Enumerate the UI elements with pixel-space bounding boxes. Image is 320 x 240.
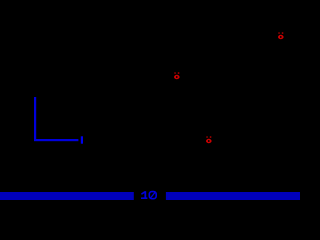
atom O3 ring xyxy=(206,139,212,143)
bond-draw cursor L-shape horizontal segment xyxy=(34,139,78,141)
digit 0 slash xyxy=(150,192,156,199)
atom O1 ring xyxy=(278,35,284,39)
atom O3 umlaut dot right xyxy=(210,136,212,137)
atom O2 umlaut dot right xyxy=(178,72,180,73)
digit 1 base serif xyxy=(141,197,147,199)
bond-draw cursor L-shape vertical segment xyxy=(34,97,36,141)
cursor end tick xyxy=(81,136,83,143)
atom O2 ring xyxy=(174,75,180,79)
atom O1 umlaut dot right xyxy=(282,32,284,33)
atom O2 (middle) umlaut dot left xyxy=(174,72,175,73)
digit 1 flag xyxy=(141,191,146,197)
status bar left segment xyxy=(0,192,134,200)
digit 0 (slashed) outline xyxy=(149,192,156,199)
atom O1 (top right) umlaut dot left xyxy=(278,32,279,33)
atom O3 (lower middle) umlaut dot left xyxy=(206,136,207,137)
status bar right segment xyxy=(166,192,300,200)
